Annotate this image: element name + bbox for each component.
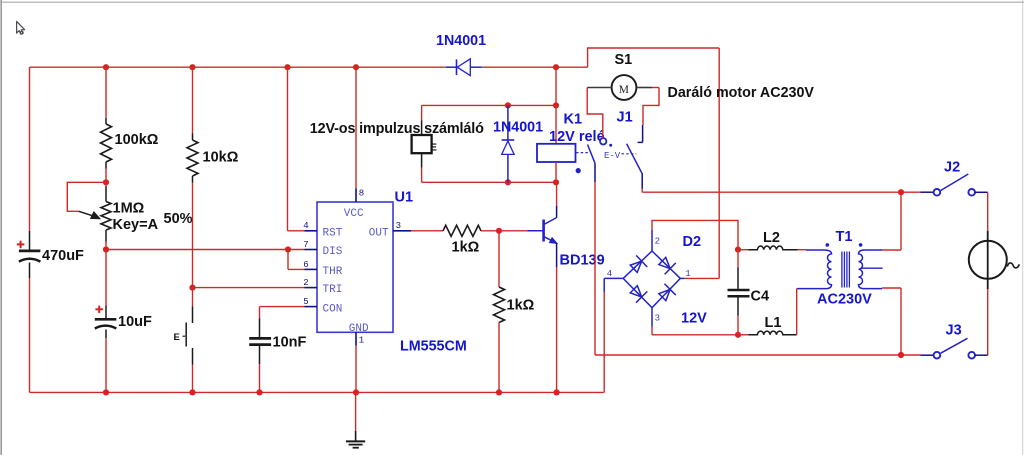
svg-text:1: 1 (359, 336, 364, 346)
svg-text:12V: 12V (681, 311, 707, 327)
svg-text:LM555CM: LM555CM (400, 339, 467, 355)
svg-text:2: 2 (655, 237, 660, 247)
svg-text:GND: GND (349, 323, 369, 335)
svg-text:M: M (619, 84, 629, 96)
svg-text:1kΩ: 1kΩ (507, 298, 535, 314)
svg-text:10nF: 10nF (273, 334, 307, 350)
svg-text:THR: THR (323, 266, 343, 278)
svg-text:U1: U1 (395, 190, 414, 206)
svg-text:K1: K1 (564, 112, 583, 128)
svg-text:Key=A: Key=A (113, 217, 159, 233)
svg-text:E: E (430, 143, 437, 154)
svg-text:E-V: E-V (604, 151, 621, 161)
svg-text:50%: 50% (164, 211, 193, 227)
svg-text:BD139: BD139 (560, 253, 605, 269)
svg-text:L2: L2 (763, 230, 780, 246)
svg-text:1N4001: 1N4001 (493, 120, 543, 136)
svg-text:3: 3 (396, 221, 401, 231)
svg-text:Daráló motor AC230V: Daráló motor AC230V (668, 85, 815, 101)
svg-text:1kΩ: 1kΩ (452, 240, 480, 256)
svg-text:8: 8 (359, 189, 364, 199)
svg-text:1MΩ: 1MΩ (113, 201, 145, 217)
svg-text:1N4001: 1N4001 (436, 33, 486, 49)
svg-text:J1: J1 (617, 110, 633, 126)
svg-text:4: 4 (303, 221, 308, 231)
svg-text:100kΩ: 100kΩ (115, 132, 159, 148)
svg-text:AC230V: AC230V (817, 292, 872, 308)
svg-text:D2: D2 (683, 234, 702, 250)
svg-text:C4: C4 (751, 289, 770, 305)
svg-text:12V-os impulzus számláló: 12V-os impulzus számláló (310, 121, 484, 137)
svg-text:2: 2 (303, 278, 308, 288)
svg-text:7: 7 (303, 240, 308, 250)
svg-text:6: 6 (303, 260, 308, 270)
svg-text:CON: CON (323, 303, 343, 315)
svg-text:J2: J2 (944, 159, 960, 175)
svg-text:10kΩ: 10kΩ (203, 150, 239, 166)
svg-text:470uF: 470uF (42, 248, 84, 264)
svg-text:S1: S1 (615, 52, 633, 68)
svg-text:3: 3 (655, 314, 660, 324)
svg-text:E: E (174, 332, 180, 343)
svg-text:DIS: DIS (323, 246, 343, 258)
svg-text:L1: L1 (765, 315, 782, 331)
svg-text:10uF: 10uF (118, 314, 152, 330)
svg-text:5: 5 (303, 297, 308, 307)
svg-text:OUT: OUT (369, 227, 389, 239)
svg-text:12V relé: 12V relé (549, 129, 605, 145)
svg-text:T1: T1 (836, 229, 853, 245)
svg-text:J3: J3 (946, 323, 962, 339)
svg-text:TRI: TRI (323, 284, 343, 296)
svg-text:RST: RST (323, 227, 343, 239)
svg-text:VCC: VCC (344, 208, 364, 220)
